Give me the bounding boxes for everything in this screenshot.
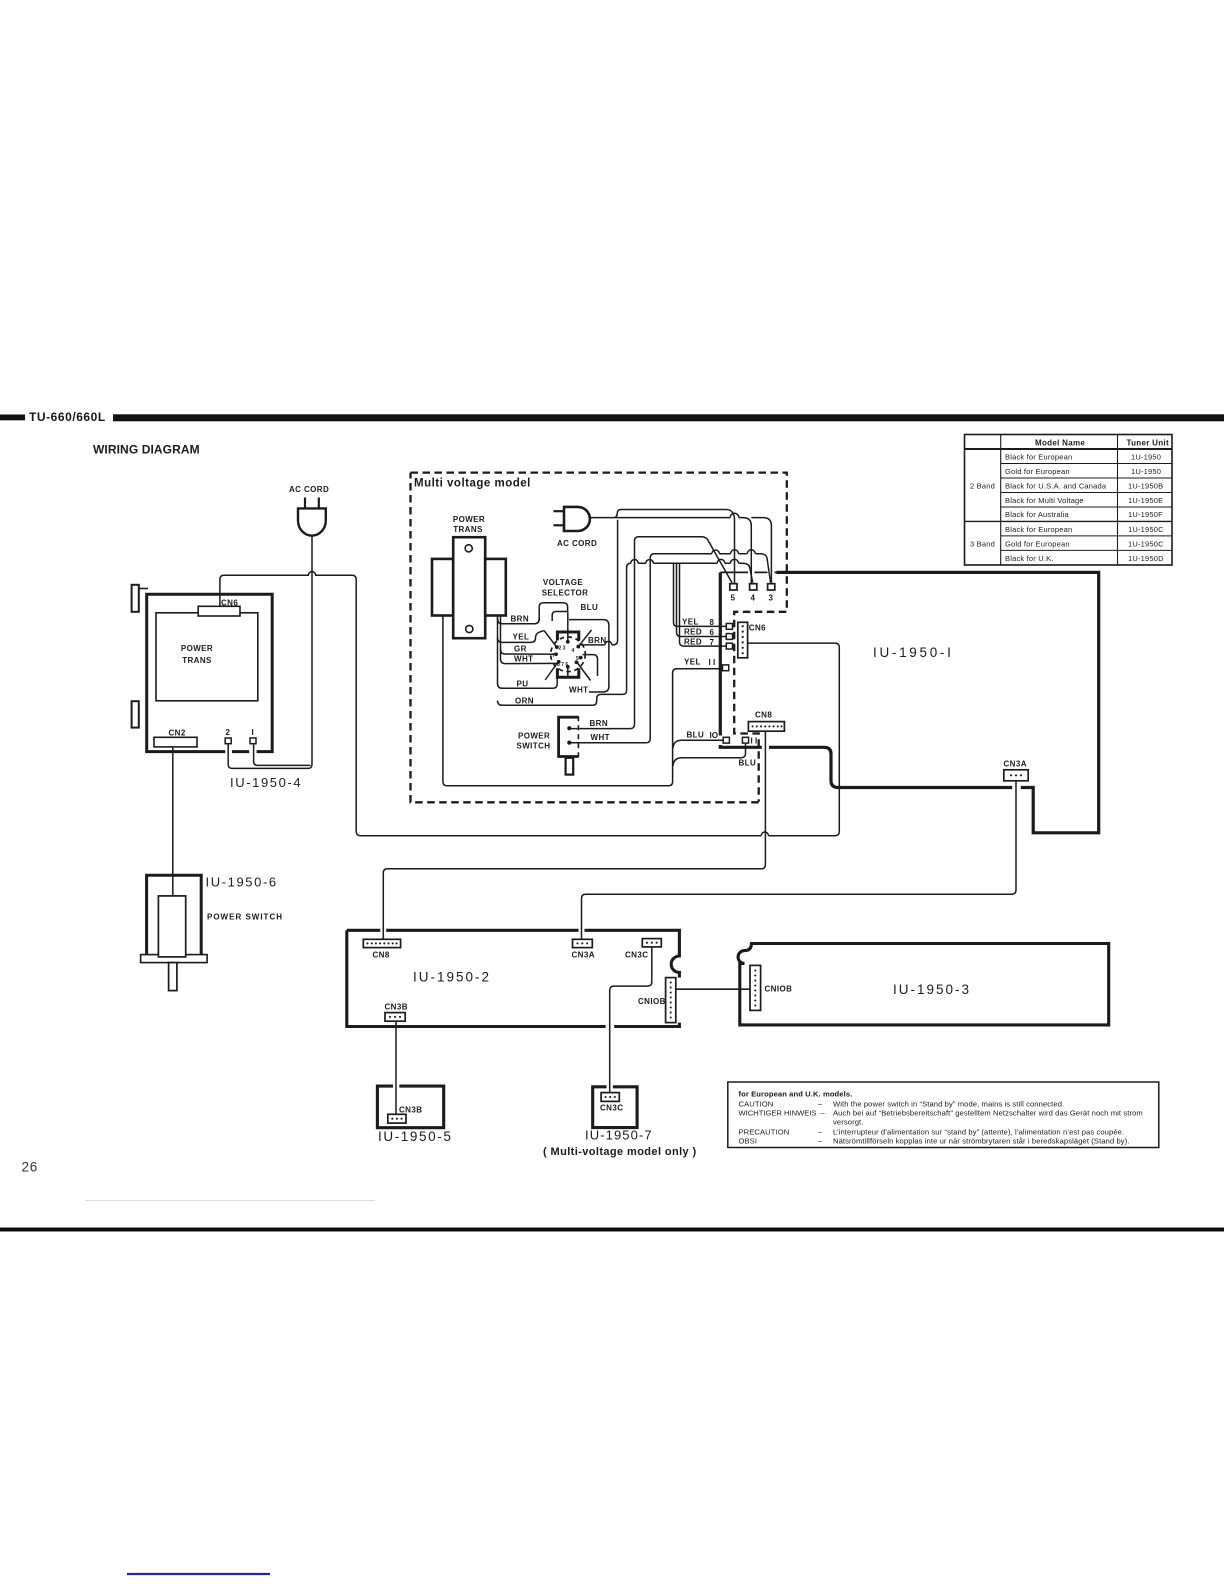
svg-text:1U-1950E: 1U-1950E <box>1128 496 1163 505</box>
svg-text:Nätsrömtillförseln kopplas int: Nätsrömtillförseln kopplas inte ur när s… <box>833 1136 1130 1145</box>
svg-text:versorgt.: versorgt. <box>833 1118 863 1127</box>
svg-text:6: 6 <box>710 628 715 637</box>
pin 8 feeder wire <box>674 563 727 626</box>
svg-text:RED: RED <box>684 628 702 637</box>
CN3A (board1) connector <box>1004 770 1028 781</box>
svg-text:–: – <box>818 1099 823 1108</box>
svg-text:IO: IO <box>710 731 718 740</box>
CN3B (board2) dots <box>389 1016 401 1018</box>
CN3B drop cable <box>395 1021 397 1114</box>
YEL 8 labels <box>682 618 715 628</box>
pin 10 wire from bundle <box>673 740 723 748</box>
pin 8 square <box>726 624 732 630</box>
svg-text:YEL: YEL <box>684 658 701 667</box>
svg-text:Multi voltage model: Multi voltage model <box>414 478 531 490</box>
rail branch A loop to pin 5 (y509.5) <box>614 510 735 584</box>
table row lines <box>965 464 1173 551</box>
svg-text:CN3C: CN3C <box>600 1104 623 1113</box>
rail branch B to pins 4 and 3 (y517.6) <box>614 518 771 584</box>
RED 6 labels <box>684 628 715 638</box>
POWER TRANS label <box>181 644 213 665</box>
table column line 1 <box>1000 435 1002 566</box>
selector arm upper-right <box>579 630 592 646</box>
svg-text:CN3A: CN3A <box>572 951 595 960</box>
IU-1950-6 base plate <box>141 955 208 963</box>
header long black bar <box>113 414 1224 421</box>
CN3A (board2) connector <box>573 939 593 947</box>
svg-text:BLU: BLU <box>739 759 757 768</box>
IU-1950-3 board outline with notch <box>738 944 1109 1025</box>
wire AC vertical down to pin2 <box>228 571 312 768</box>
power trans left flange wire down <box>443 617 723 786</box>
svg-text:Black for Multi Voltage: Black for Multi Voltage <box>1005 496 1084 505</box>
CN3B (board5) connector <box>388 1114 406 1123</box>
svg-text:3: 3 <box>769 594 774 603</box>
svg-text:CN3A: CN3A <box>1004 760 1027 769</box>
svg-text:CNIOB: CNIOB <box>765 985 793 994</box>
svg-text:1U-1950F: 1U-1950F <box>1128 510 1163 519</box>
IU-1950-7 box <box>593 1087 637 1128</box>
svg-text:Tuner Unit: Tuner Unit <box>1127 439 1169 448</box>
svg-text:( Multi-voltage model only ): ( Multi-voltage model only ) <box>543 1146 697 1158</box>
CN3C (board7) dots <box>605 1096 616 1098</box>
faint divider line <box>85 1200 375 1202</box>
wire CN6 riser <box>220 575 224 606</box>
svg-text:–: – <box>821 1109 826 1118</box>
IU-1950-2 board outline <box>347 930 680 1026</box>
IU-1950-4 outer box <box>147 594 273 751</box>
VOLTAGE SELECTOR label <box>542 578 589 598</box>
selector pin5 link wire <box>583 655 598 676</box>
power trans top hole <box>465 545 472 552</box>
pin 6 feeder wire <box>677 563 727 637</box>
svg-text:–: – <box>818 1136 823 1145</box>
CNIOB cable between boards <box>676 988 750 990</box>
CN8 (board1) connector <box>748 722 784 732</box>
selector 7 stub <box>567 667 569 677</box>
svg-text:BLU: BLU <box>581 603 599 612</box>
svg-text:2 Band: 2 Band <box>970 482 995 491</box>
svg-text:IU-1950-2: IU-1950-2 <box>413 970 491 985</box>
mounting tab upper <box>132 585 139 612</box>
WHT row wire <box>501 659 558 664</box>
AC plug (left) prong 1 <box>304 498 306 508</box>
CNIOB (board3) dots <box>754 969 756 1006</box>
svg-text:IU-1950-3: IU-1950-3 <box>893 982 971 997</box>
CN6 cable: multi CN6 to board1 CN6 <box>356 583 839 836</box>
CN3C (board7) connector <box>601 1093 619 1102</box>
svg-text:Black for European: Black for European <box>1005 452 1072 461</box>
svg-text:IU-1950-6: IU-1950-6 <box>206 875 278 890</box>
GR row wire <box>501 649 557 654</box>
pin 2 square <box>225 738 231 744</box>
CNIOB (board2) connector <box>666 978 676 1023</box>
pin 11 square <box>723 665 729 671</box>
svg-text:1U-1950B: 1U-1950B <box>1128 481 1163 490</box>
svg-text:Gold for European: Gold for European <box>1005 539 1070 548</box>
pin 10 square <box>723 737 729 743</box>
hop on BRN selector wire over BLU loop vertical <box>605 641 612 645</box>
CN8 (board1) dots <box>752 725 783 727</box>
svg-text:Auch bei auf “Betriebsbereitsc: Auch bei auf “Betriebsbereitschaft” gest… <box>833 1109 1143 1118</box>
rail y537 to pin 5 with diagonal <box>635 537 733 583</box>
pin 1 square <box>250 738 256 744</box>
BRN row wire <box>498 618 540 624</box>
svg-text:CN8: CN8 <box>755 711 772 720</box>
svg-text:POWER: POWER <box>518 732 550 741</box>
blue footer line <box>127 1573 270 1575</box>
power trans inner box <box>156 613 258 701</box>
svg-text:L’interrupteur d’alimentation: L’interrupteur d’alimentation sur “stand… <box>833 1127 1124 1136</box>
table column line 2 <box>1117 435 1119 566</box>
CN3C (board2) connector <box>642 939 661 947</box>
IU-1950-6 box <box>147 875 202 955</box>
svg-text:OBSI: OBSI <box>739 1136 758 1145</box>
svg-text:POWER SWITCH: POWER SWITCH <box>207 913 283 922</box>
ORN row wire up to rail <box>498 567 627 705</box>
CN8 (board2) connector <box>363 939 400 947</box>
svg-text:for European and U.K. models.: for European and U.K. models. <box>739 1089 853 1098</box>
svg-text:CN6: CN6 <box>749 624 766 633</box>
svg-text:8 7 6: 8 7 6 <box>557 662 568 668</box>
power trans (multi) left flange <box>432 559 453 616</box>
svg-text:WICHTIGER HINWEIS: WICHTIGER HINWEIS <box>739 1109 817 1118</box>
svg-text:AC CORD: AC CORD <box>557 539 597 548</box>
rail y563 to pin 4 diagonal <box>627 563 753 583</box>
svg-text:4: 4 <box>572 648 575 654</box>
selector arm lower-left <box>545 662 558 681</box>
power trans (multi) right flange <box>485 559 506 616</box>
hop marks on rails <box>631 550 756 563</box>
selector arm upper-left <box>544 631 557 647</box>
svg-text:5: 5 <box>731 594 736 603</box>
IU-1950-6 stem <box>169 963 177 991</box>
svg-text:2 3: 2 3 <box>559 646 566 652</box>
CNIOB (board2) dots <box>670 981 672 1018</box>
BRN switch wire up to rail537 <box>569 541 634 729</box>
svg-text:IU-1950-I: IU-1950-I <box>873 645 954 660</box>
svg-text:1U-1950D: 1U-1950D <box>1128 554 1164 563</box>
CN6 connector (left) <box>198 606 240 616</box>
svg-text:Gold for European: Gold for European <box>1005 467 1070 476</box>
svg-text:CNIOB: CNIOB <box>638 997 666 1006</box>
svg-text:26: 26 <box>22 1160 39 1175</box>
svg-text:–: – <box>818 1127 823 1136</box>
svg-text:Black for U.K.: Black for U.K. <box>1005 554 1054 563</box>
svg-text:RED: RED <box>684 637 702 646</box>
PU row wire <box>498 677 558 688</box>
power switch (multi) box <box>559 717 579 756</box>
svg-text:BLU: BLU <box>687 731 705 740</box>
mounting tab lower <box>132 701 139 727</box>
svg-text:I I: I I <box>751 737 758 746</box>
POWER SWITCH label (multi) <box>517 732 551 751</box>
svg-text:CN3B: CN3B <box>399 1106 422 1115</box>
svg-text:AC CORD: AC CORD <box>289 485 329 494</box>
rail y554 to pin 3 diagonal <box>650 554 770 583</box>
selector top bracket <box>557 632 578 641</box>
svg-text:1U-1950C: 1U-1950C <box>1128 525 1164 534</box>
wire CN6 stub horizontal with hop over AC wire <box>224 572 356 583</box>
svg-text:TRANS: TRANS <box>182 656 212 665</box>
AC plug (multi) body <box>564 507 590 531</box>
CN8 cable: board1 CN8 down, left, down to board2 CN8 <box>383 731 765 939</box>
IU-1950-5 box <box>377 1086 443 1128</box>
wire pin1 branch joining AC wire <box>254 745 311 766</box>
wire from AC plug (multi) to junction <box>590 517 614 519</box>
YEL row wire <box>498 631 544 643</box>
selector 3 wire up <box>567 612 569 642</box>
svg-text:Black for European: Black for European <box>1005 525 1072 534</box>
power switch contact dots <box>567 726 571 745</box>
svg-text:2: 2 <box>226 728 231 737</box>
svg-text:1U-1950: 1U-1950 <box>1131 452 1161 461</box>
wire from AC plug down <box>311 536 313 571</box>
svg-text:POWER: POWER <box>181 644 213 653</box>
AC plug (left) prong 2 <box>318 498 320 508</box>
square 11 pin (near CN8) <box>742 737 748 743</box>
CN3A cable: board1 CN3A down, left, down to board2 CN3A <box>582 781 1017 940</box>
svg-text:SWITCH: SWITCH <box>517 742 551 751</box>
CN6 (board1) connector <box>738 622 748 658</box>
selector cap loop <box>539 603 567 621</box>
svg-text:PRECAUTION: PRECAUTION <box>739 1127 790 1136</box>
pin 4 square <box>750 584 757 590</box>
svg-text:IU-1950-4: IU-1950-4 <box>230 775 302 790</box>
IU-1950-1 board outline top edge thin part with breaks <box>720 571 776 573</box>
selector cap inner step <box>552 612 567 622</box>
CN3C (board2) dots <box>646 942 658 944</box>
hop on CN6 cable over CN8 riser <box>761 832 768 836</box>
svg-text:ORN: ORN <box>515 696 534 705</box>
svg-text:CN2: CN2 <box>169 728 186 737</box>
svg-text:1U-1950C: 1U-1950C <box>1128 539 1164 548</box>
CNIOB (board3) connector <box>750 965 761 1010</box>
groups are appended below <box>0 410 1224 457</box>
svg-text:With the power switch in “Stan: With the power switch in “Stand by” mode… <box>833 1099 1064 1108</box>
YEL 11 labels <box>684 658 715 668</box>
svg-text:CN8: CN8 <box>373 951 390 960</box>
BLU wire loop right <box>569 620 609 692</box>
tab upper link <box>139 588 148 590</box>
svg-text:5: 5 <box>576 656 579 662</box>
IU-1950-6 plunger <box>158 896 185 957</box>
selector pin dots <box>554 640 583 669</box>
header left black bar <box>0 415 25 421</box>
power switch stem <box>566 758 574 775</box>
AC plug (multi) prong 2 <box>553 524 564 526</box>
caution box <box>728 1082 1159 1148</box>
selector bottom bracket <box>557 668 578 677</box>
svg-text:TU-660/660L: TU-660/660L <box>29 410 106 424</box>
svg-text:WHT: WHT <box>569 686 588 695</box>
svg-text:GR: GR <box>514 645 527 654</box>
selector numbers <box>553 646 580 668</box>
svg-text:3 Band: 3 Band <box>970 540 995 549</box>
AC plug (multi) prong 1 <box>553 510 564 512</box>
CN6 (board1) dots <box>742 625 744 654</box>
svg-text:SELECTOR: SELECTOR <box>542 589 589 598</box>
WHT switch wire up to rail554 <box>569 558 650 743</box>
table texts <box>970 439 1169 563</box>
svg-text:WIRING DIAGRAM: WIRING DIAGRAM <box>93 443 200 457</box>
CN2 connector <box>154 737 197 747</box>
power trans (multi) core rect <box>453 537 485 638</box>
svg-text:WHT: WHT <box>514 654 533 663</box>
wire CN2 down to power switch <box>172 747 174 897</box>
CN8 (board2) dots <box>366 942 397 944</box>
pin 7 square <box>726 643 732 649</box>
hop on branch B over pin5 vertical <box>730 513 739 517</box>
thick bottom rule <box>0 1228 1224 1232</box>
svg-text:CN3C: CN3C <box>625 951 648 960</box>
svg-text:I I: I I <box>709 658 716 667</box>
svg-text:BRN: BRN <box>511 615 530 624</box>
svg-text:Model Name: Model Name <box>1035 439 1085 448</box>
selector dashed circle <box>551 637 586 672</box>
CN3C drop cable <box>610 947 652 1093</box>
model table outer border <box>965 435 1173 566</box>
svg-text:Black for U.S.A. and Canada: Black for U.S.A. and Canada <box>1005 481 1107 490</box>
svg-text:CAUTION: CAUTION <box>739 1099 774 1108</box>
CN3B (board2) connector <box>385 1013 405 1022</box>
square 11 wire down and left to bundle <box>673 744 746 766</box>
BLU 10 labels <box>687 731 718 741</box>
svg-text:WHT: WHT <box>591 733 610 742</box>
pin 5 square <box>730 584 737 590</box>
multi voltage model dashed box <box>411 473 787 803</box>
CN3B (board5) dots <box>391 1118 402 1120</box>
svg-text:1U-1950: 1U-1950 <box>1131 467 1161 476</box>
svg-text:POWER: POWER <box>453 515 485 524</box>
selector arm lower-right <box>577 662 591 681</box>
pin 7 feeder wire <box>680 563 727 646</box>
svg-text:CN3B: CN3B <box>385 1003 408 1012</box>
svg-text:YEL: YEL <box>513 633 530 642</box>
pin 3 square <box>768 584 775 590</box>
power trans bottom hole <box>466 625 473 632</box>
svg-text:BRN: BRN <box>588 636 607 645</box>
IU-1950-1 board outline main thick path <box>720 572 1098 832</box>
vertical from junction down to BRN selector wire <box>580 520 618 645</box>
svg-text:IU-1950-5: IU-1950-5 <box>378 1129 452 1144</box>
svg-text:VOLTAGE: VOLTAGE <box>543 578 584 587</box>
left bus verticals from flange <box>498 616 501 684</box>
CN3A (board2) dots <box>576 942 588 944</box>
svg-text:Black for Australia: Black for Australia <box>1005 510 1069 519</box>
RED 7 labels <box>684 637 715 647</box>
pin 6 square <box>726 634 732 640</box>
POWER TRANS label (multi) <box>453 515 485 534</box>
caution text block <box>739 1089 1143 1145</box>
CN3A (board1) dots <box>1010 774 1022 776</box>
svg-text:YEL: YEL <box>682 618 699 627</box>
svg-text:PU: PU <box>517 680 529 689</box>
AC plug (left) body <box>298 508 326 535</box>
table header bottom rule <box>965 448 1173 450</box>
svg-text:I: I <box>252 728 254 737</box>
svg-text:4: 4 <box>751 594 756 603</box>
svg-text:BRN: BRN <box>590 719 609 728</box>
svg-text:IU-1950-7: IU-1950-7 <box>585 1128 653 1143</box>
power switch right dashed edge <box>577 716 579 757</box>
svg-text:TRANS: TRANS <box>453 525 483 534</box>
